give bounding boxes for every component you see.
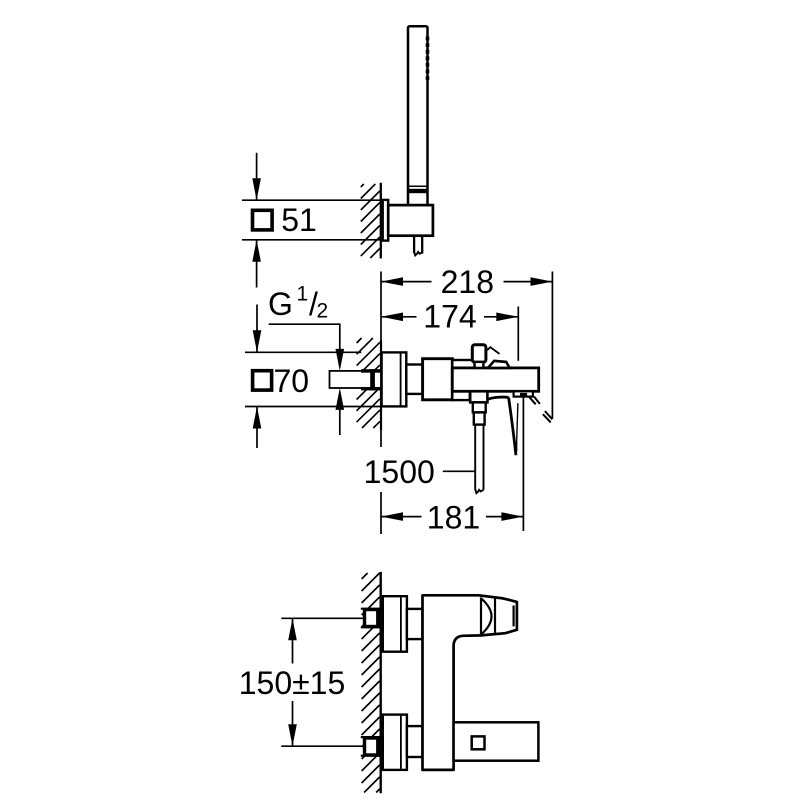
hand shower trim line xyxy=(409,185,428,187)
shower holder outlet pipe xyxy=(414,236,422,256)
tub spout square opening xyxy=(472,736,485,749)
lower escutcheon (bottom view) xyxy=(383,715,407,770)
water stream marks upper xyxy=(529,397,540,405)
dimension 150 line upper xyxy=(288,618,297,663)
dimension 70 line lower xyxy=(253,407,262,449)
aerator slot xyxy=(520,393,527,397)
body top strip xyxy=(452,360,474,368)
wall hatching (middle view) xyxy=(357,338,380,428)
shower hose xyxy=(475,425,483,494)
label 174 xyxy=(423,299,476,335)
dimension 150 extension line bottom xyxy=(281,745,364,747)
lever end slot xyxy=(512,606,514,627)
hand shower handle xyxy=(408,26,428,205)
dome-lever joint line xyxy=(494,598,496,633)
lever wedge xyxy=(488,361,510,368)
label 51 xyxy=(281,202,317,238)
lower wall connection square xyxy=(361,737,380,756)
wall extension line (middle view) xyxy=(380,272,382,535)
dimension 150 line lower xyxy=(288,701,297,746)
svg-text:218: 218 xyxy=(441,264,494,300)
hose outlet nut xyxy=(474,412,485,424)
dimension 181 line xyxy=(381,512,523,521)
wall hatching (top view) xyxy=(361,184,380,258)
svg-text:70: 70 xyxy=(274,363,310,399)
svg-text:150±15: 150±15 xyxy=(239,665,346,701)
dimension 51 line upper xyxy=(252,153,261,200)
svg-text:51: 51 xyxy=(281,202,317,238)
label 150 plus-minus 15 xyxy=(239,665,346,701)
dimension 150 extension line top xyxy=(281,617,364,619)
hose outlet stage 2 xyxy=(473,402,486,412)
dimension 218 right extension line xyxy=(551,272,553,419)
hose outlet stage 1 xyxy=(470,391,487,402)
dimension 218 line xyxy=(381,277,553,286)
svg-text:1500: 1500 xyxy=(364,454,435,490)
cartridge stem xyxy=(475,362,484,368)
dimension 70 line upper xyxy=(253,305,262,353)
supply pipe union (bold) xyxy=(361,369,381,390)
label G 1/2 xyxy=(268,283,328,323)
body bottom strip xyxy=(452,391,470,400)
dimension 70 extension line bottom xyxy=(245,406,381,408)
label 181 xyxy=(427,500,480,536)
dimension 51 extension line top xyxy=(242,199,383,201)
supply pipe xyxy=(330,371,382,388)
label 70 xyxy=(274,363,310,399)
escutcheon (middle view) xyxy=(382,352,407,406)
wall line (top view) xyxy=(380,183,382,259)
dimension 181 right extension line xyxy=(522,397,524,531)
svg-text:G: G xyxy=(268,286,293,322)
cartridge dome chord xyxy=(480,597,482,635)
label 218 xyxy=(441,264,494,300)
svg-text:181: 181 xyxy=(427,500,480,536)
upper neck (bottom view) xyxy=(407,609,423,639)
tub spout (bottom view) xyxy=(454,722,539,760)
svg-text:174: 174 xyxy=(423,299,476,335)
hand shower spray dashes xyxy=(426,37,430,81)
upper wall connection square xyxy=(361,609,380,628)
wall hatching (bottom view) xyxy=(362,573,380,793)
1500 leader line xyxy=(443,470,475,472)
G 1/2 lower arrow xyxy=(336,388,345,435)
lower neck (bottom view) xyxy=(407,726,423,757)
dimension 51 extension line bottom xyxy=(242,239,383,241)
dimension 174 line xyxy=(381,313,518,322)
lever max-position tick xyxy=(487,347,499,354)
mixer body (bottom view) xyxy=(423,595,517,770)
water stream marks lower xyxy=(543,411,552,422)
mixer body bar xyxy=(452,368,538,391)
wall line (bottom view) xyxy=(380,572,382,793)
aerator housing xyxy=(514,391,533,396)
G 1/2 leader line xyxy=(269,324,344,371)
shower holder wall flange xyxy=(383,200,389,241)
cartridge dome arc xyxy=(481,598,492,634)
dimension 174 right extension line xyxy=(517,307,519,361)
valve block xyxy=(423,359,453,400)
square symbol for 70 xyxy=(253,371,272,390)
dimension 51 line lower xyxy=(252,240,261,288)
upper escutcheon (bottom view) xyxy=(383,596,407,652)
svg-text:2: 2 xyxy=(317,300,329,323)
shower holder body xyxy=(388,205,433,236)
S-union neck (middle view) xyxy=(406,365,422,394)
hand shower black band xyxy=(409,189,427,193)
cartridge knob xyxy=(472,345,486,363)
dimension 70 extension line top xyxy=(245,351,361,353)
svg-text:1: 1 xyxy=(297,283,309,306)
square symbol for 51 xyxy=(253,210,273,230)
lever arm xyxy=(488,397,518,455)
label 1500 xyxy=(364,454,435,490)
